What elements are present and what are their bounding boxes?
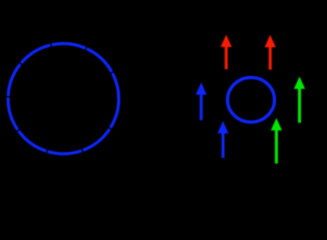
- red arrow top-left: [221, 35, 232, 70]
- blue arrow left: [196, 82, 207, 120]
- blue arrow bottom-left: [217, 121, 228, 158]
- small circle (loop): [228, 78, 275, 123]
- red arrow top-right: [265, 35, 276, 70]
- green arrow right: [294, 77, 305, 123]
- green arrow bottom-right: [271, 118, 282, 164]
- large circle (loop): [8, 44, 119, 154]
